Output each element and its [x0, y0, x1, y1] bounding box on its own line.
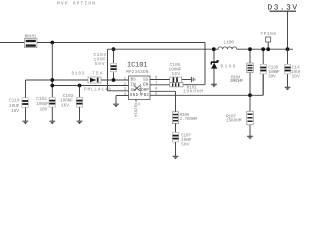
wire input rail drop at x=205 — [204, 43, 206, 85]
capacitor C103 — [60, 93, 83, 121]
bead B0101 — [25, 33, 38, 47]
wire GND pin4 drop — [115, 96, 117, 104]
svg-text:75V: 75V — [92, 71, 103, 76]
node junction dot SW/D100 — [212, 47, 216, 51]
svg-text:GND: GND — [130, 93, 139, 98]
wire COMP pin6 stub — [150, 90, 176, 92]
svg-text:50V: 50V — [268, 74, 276, 80]
svg-text:10KOHM: 10KOHM — [183, 88, 203, 94]
svg-text:C110: C110 — [9, 98, 20, 104]
svg-text:C102: C102 — [36, 96, 47, 102]
svg-text:TP108: TP108 — [261, 31, 277, 37]
wire SW line y=49.2 — [108, 48, 214, 50]
ground D100 — [211, 84, 217, 87]
capacitor C102 — [36, 96, 55, 121]
wire vertical x52.3 input down — [51, 43, 53, 98]
wire input rail y=42.5 — [0, 42, 205, 44]
node junction dot FB divider — [248, 93, 252, 97]
wire FB corner riser x263.2 — [262, 74, 264, 95]
wire FB2 pin5 long — [150, 94, 263, 96]
resistor R101 — [150, 83, 203, 95]
capacitor C110 — [9, 98, 28, 121]
capacitor C107 — [172, 132, 191, 156]
wire R101 right to x205 corner — [183, 84, 205, 86]
inductor L100 — [216, 40, 237, 50]
ground C107 — [173, 156, 179, 159]
test point TP108 — [261, 31, 277, 49]
node junction dot C104 bottom — [112, 78, 116, 82]
svg-text:D103: D103 — [72, 70, 85, 76]
svg-text:D100: D100 — [221, 63, 236, 69]
svg-text:10V: 10V — [292, 73, 300, 79]
node junction dot x52/y80 — [50, 78, 54, 82]
node junction dot x52/y85.5 — [50, 84, 54, 88]
wire C103 riser x79.5 — [79, 86, 81, 98]
resistor R104 — [230, 49, 253, 95]
node IC bottom stub and side label — [133, 100, 141, 118]
ground C140 — [285, 87, 291, 90]
resistor R107 — [226, 95, 253, 136]
ground IC pin4 — [113, 104, 119, 107]
wire output rail y=49.2 — [237, 48, 293, 50]
node junction dot rail/D3.3V — [286, 47, 290, 51]
node junction dot rail/TP108 — [266, 47, 270, 51]
diode D103 PMLL4148 — [72, 70, 112, 92]
svg-text:X0201A: X0201A — [133, 103, 138, 118]
node junction dot C104 top — [112, 47, 116, 51]
svg-text:IC101: IC101 — [127, 62, 148, 70]
svg-text:50V: 50V — [181, 141, 190, 147]
ground R107 — [247, 136, 253, 139]
svg-text:50V: 50V — [95, 61, 105, 67]
svg-text:MVP OPTION: MVP OPTION — [57, 0, 95, 6]
node junction dot rail/R104 — [248, 47, 252, 51]
svg-text:100UF: 100UF — [36, 101, 49, 107]
wire COMP drop x175.5 — [175, 91, 177, 112]
svg-text:L100: L100 — [224, 40, 235, 46]
svg-text:FB2: FB2 — [141, 93, 149, 98]
svg-text:MP2363DN: MP2363DN — [126, 69, 149, 75]
svg-text:16V: 16V — [11, 108, 19, 114]
ground sideways at C105 — [191, 77, 195, 82]
svg-text:10V: 10V — [40, 106, 48, 112]
node junction dot x79.5/y85.5 — [78, 84, 82, 88]
ground C110 — [23, 121, 29, 124]
svg-text:15KOHM: 15KOHM — [226, 118, 242, 124]
svg-text:16V: 16V — [172, 71, 181, 77]
wire GND pin4 stub — [116, 95, 129, 97]
svg-text:16V: 16V — [61, 102, 69, 108]
node junction dot rail/C139 — [261, 47, 265, 51]
capacitor C139 — [260, 49, 280, 95]
wire BS row y=80 — [26, 79, 129, 81]
wire SW pin3 stub — [108, 90, 129, 92]
svg-text:2.7KOHM: 2.7KOHM — [180, 116, 198, 122]
capacitor C140 — [284, 49, 302, 87]
wire SW riser x107.5 — [107, 49, 109, 91]
diode D100 schottky — [211, 49, 236, 84]
capacitor C105 — [150, 62, 191, 82]
node D3.3V supply label — [268, 4, 298, 50]
capacitor C104 — [94, 49, 117, 80]
svg-text:10UF: 10UF — [9, 103, 20, 109]
resistor R106 — [172, 112, 197, 133]
svg-text:39KOHM: 39KOHM — [230, 78, 243, 84]
wire IN row y=85.5 — [52, 85, 128, 87]
ground C102 — [49, 121, 55, 124]
op-amp U1 IC101 MP2363DN box — [126, 62, 150, 100]
wire C110 riser x25.5 — [25, 80, 27, 98]
ground C103 — [77, 121, 83, 124]
node junction dot input/x52 — [50, 41, 54, 45]
